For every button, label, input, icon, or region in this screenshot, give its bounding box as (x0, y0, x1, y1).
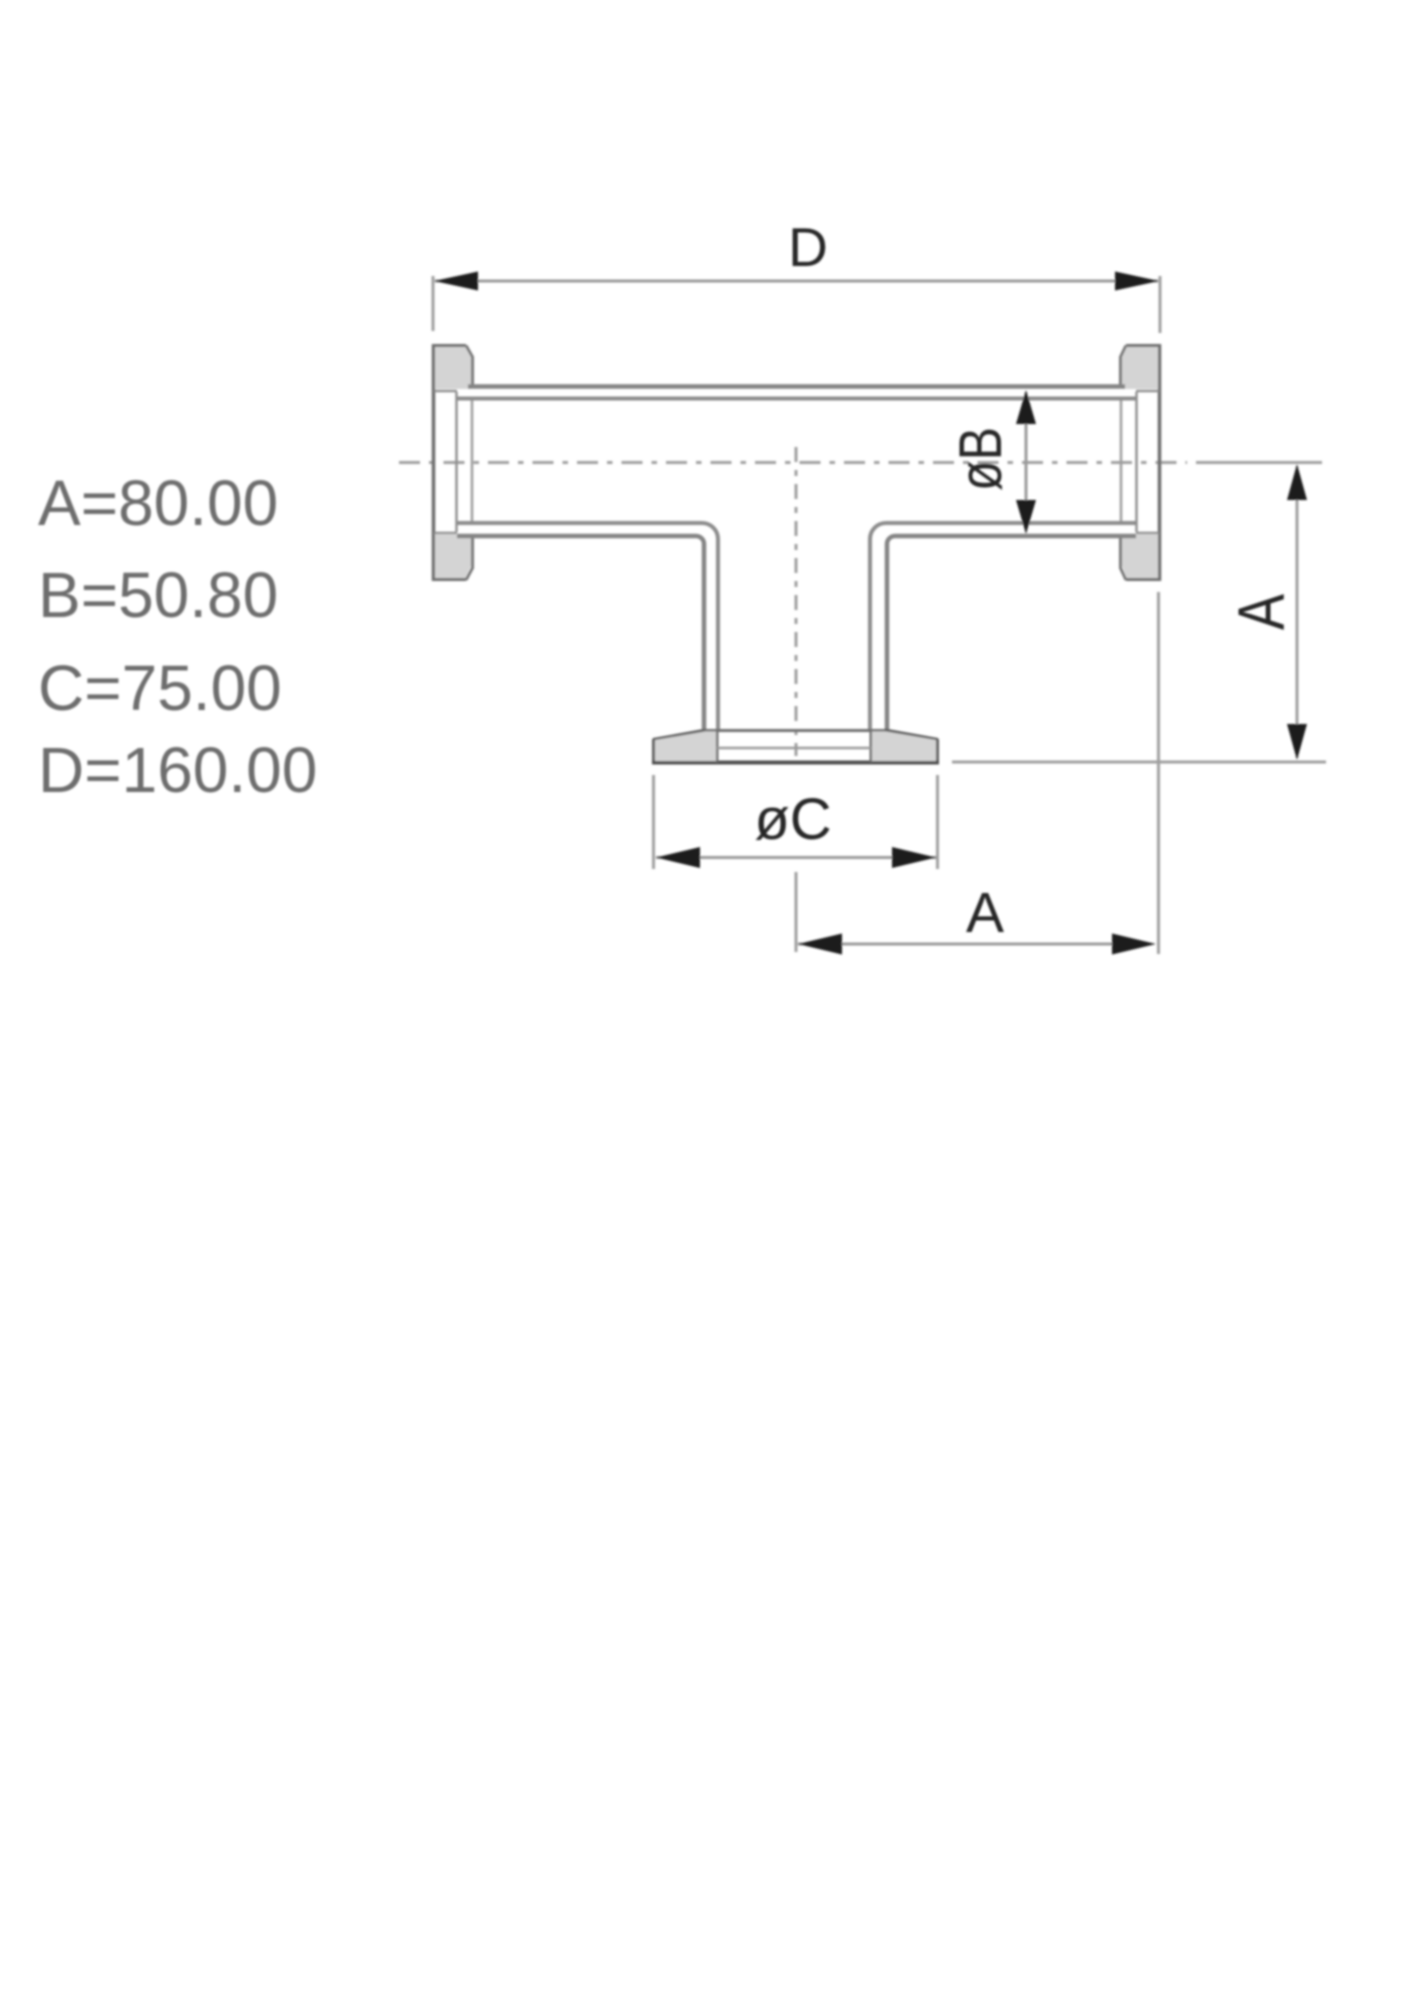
dimension A bottom left arrowhead (798, 934, 842, 955)
dimension D left arrowhead (434, 272, 478, 291)
svg-text:D=160.00: D=160.00 (38, 734, 317, 806)
left flange bottom edge (432, 578, 466, 581)
svg-text:D: D (788, 216, 828, 278)
bottom flange left cross-section fill (655, 732, 716, 762)
left flange bore vertical (471, 398, 474, 524)
left flange top groove line (434, 390, 457, 393)
tube top outer wall line (468, 384, 1125, 389)
dimension A bottom right extension line (1157, 592, 1160, 954)
bottom flange recess line (717, 747, 871, 750)
bottom flange right edge (936, 739, 939, 763)
right flange bottom groove line (1136, 532, 1159, 535)
dimension D right extension line (1159, 276, 1162, 333)
left flange bottom cross-section fill (435, 534, 471, 578)
svg-text:A: A (1224, 594, 1298, 630)
svg-text:øB: øB (947, 427, 1014, 491)
svg-text:B=50.80: B=50.80 (38, 559, 278, 631)
dimension A bottom center extension line (795, 872, 798, 952)
dimension A right line (1296, 466, 1299, 758)
dimension A right bottom arrowhead (1287, 724, 1307, 760)
dimension B line (1025, 392, 1028, 532)
dimension C line (656, 856, 936, 859)
dimension D line (435, 280, 1158, 283)
dimension A right bottom extension line (952, 761, 1326, 764)
bottom flange right cross-section fill (872, 732, 936, 762)
dimension C right arrowhead (892, 847, 936, 868)
bottom flange top face (704, 729, 887, 732)
left flange groove vertical (455, 392, 458, 532)
tube bottom inner wall and branch right inner wall (870, 523, 1136, 729)
left flange top edge (432, 344, 466, 347)
dimension B top arrowhead (1016, 390, 1036, 424)
dimension D right arrowhead (1115, 272, 1159, 291)
dimension C left extension line (652, 775, 655, 869)
dimension C left arrowhead (656, 847, 700, 868)
right flange bottom edge (1126, 578, 1161, 581)
right flange top edge (1126, 344, 1161, 347)
dimension A right top extension line (1196, 461, 1322, 464)
bottom flange left edge (652, 739, 655, 763)
tube bottom outer wall and branch left outer wall (457, 536, 704, 729)
dimension A bottom right arrowhead (1112, 934, 1156, 955)
bottom flange top chamfer left (653, 730, 706, 740)
left flange top cross-section fill (435, 347, 471, 389)
tube bottom outer wall and branch right outer wall (887, 536, 1136, 729)
right flange top cross-section fill (1122, 347, 1158, 389)
left flange top corner chamfer (466, 346, 473, 388)
tube bottom inner wall and branch left inner wall (457, 523, 718, 729)
svg-text:øC: øC (754, 787, 831, 852)
bottom flange top chamfer right (885, 730, 938, 740)
right flange bore vertical (1120, 398, 1123, 524)
right flange groove vertical (1135, 392, 1138, 532)
right flange sealing face (1158, 344, 1162, 581)
left flange bottom corner chamfer (466, 536, 473, 580)
horizontal centerline (399, 461, 1187, 464)
bottom flange bottom edge (652, 761, 939, 765)
dimension B bottom arrowhead (1016, 500, 1036, 534)
right flange top corner chamfer (1121, 346, 1127, 388)
svg-text:A: A (966, 881, 1004, 945)
right flange top groove line (1136, 390, 1159, 393)
bottom flange right bore vertical (870, 731, 873, 762)
right flange bottom corner chamfer (1121, 536, 1127, 580)
right flange bottom cross-section fill (1122, 534, 1158, 578)
vertical centerline of branch (795, 447, 798, 756)
dimension C right extension line (936, 775, 939, 869)
dimension A bottom line (798, 943, 1115, 946)
left flange sealing face (432, 344, 436, 581)
dimension A right top arrowhead (1287, 464, 1307, 500)
bottom flange left bore vertical (716, 731, 719, 762)
left flange bottom groove line (434, 532, 457, 535)
svg-text:A=80.00: A=80.00 (38, 467, 278, 539)
svg-text:C=75.00: C=75.00 (38, 652, 282, 724)
dimension D left extension line (432, 276, 435, 331)
tube top inner wall line (457, 397, 1136, 401)
